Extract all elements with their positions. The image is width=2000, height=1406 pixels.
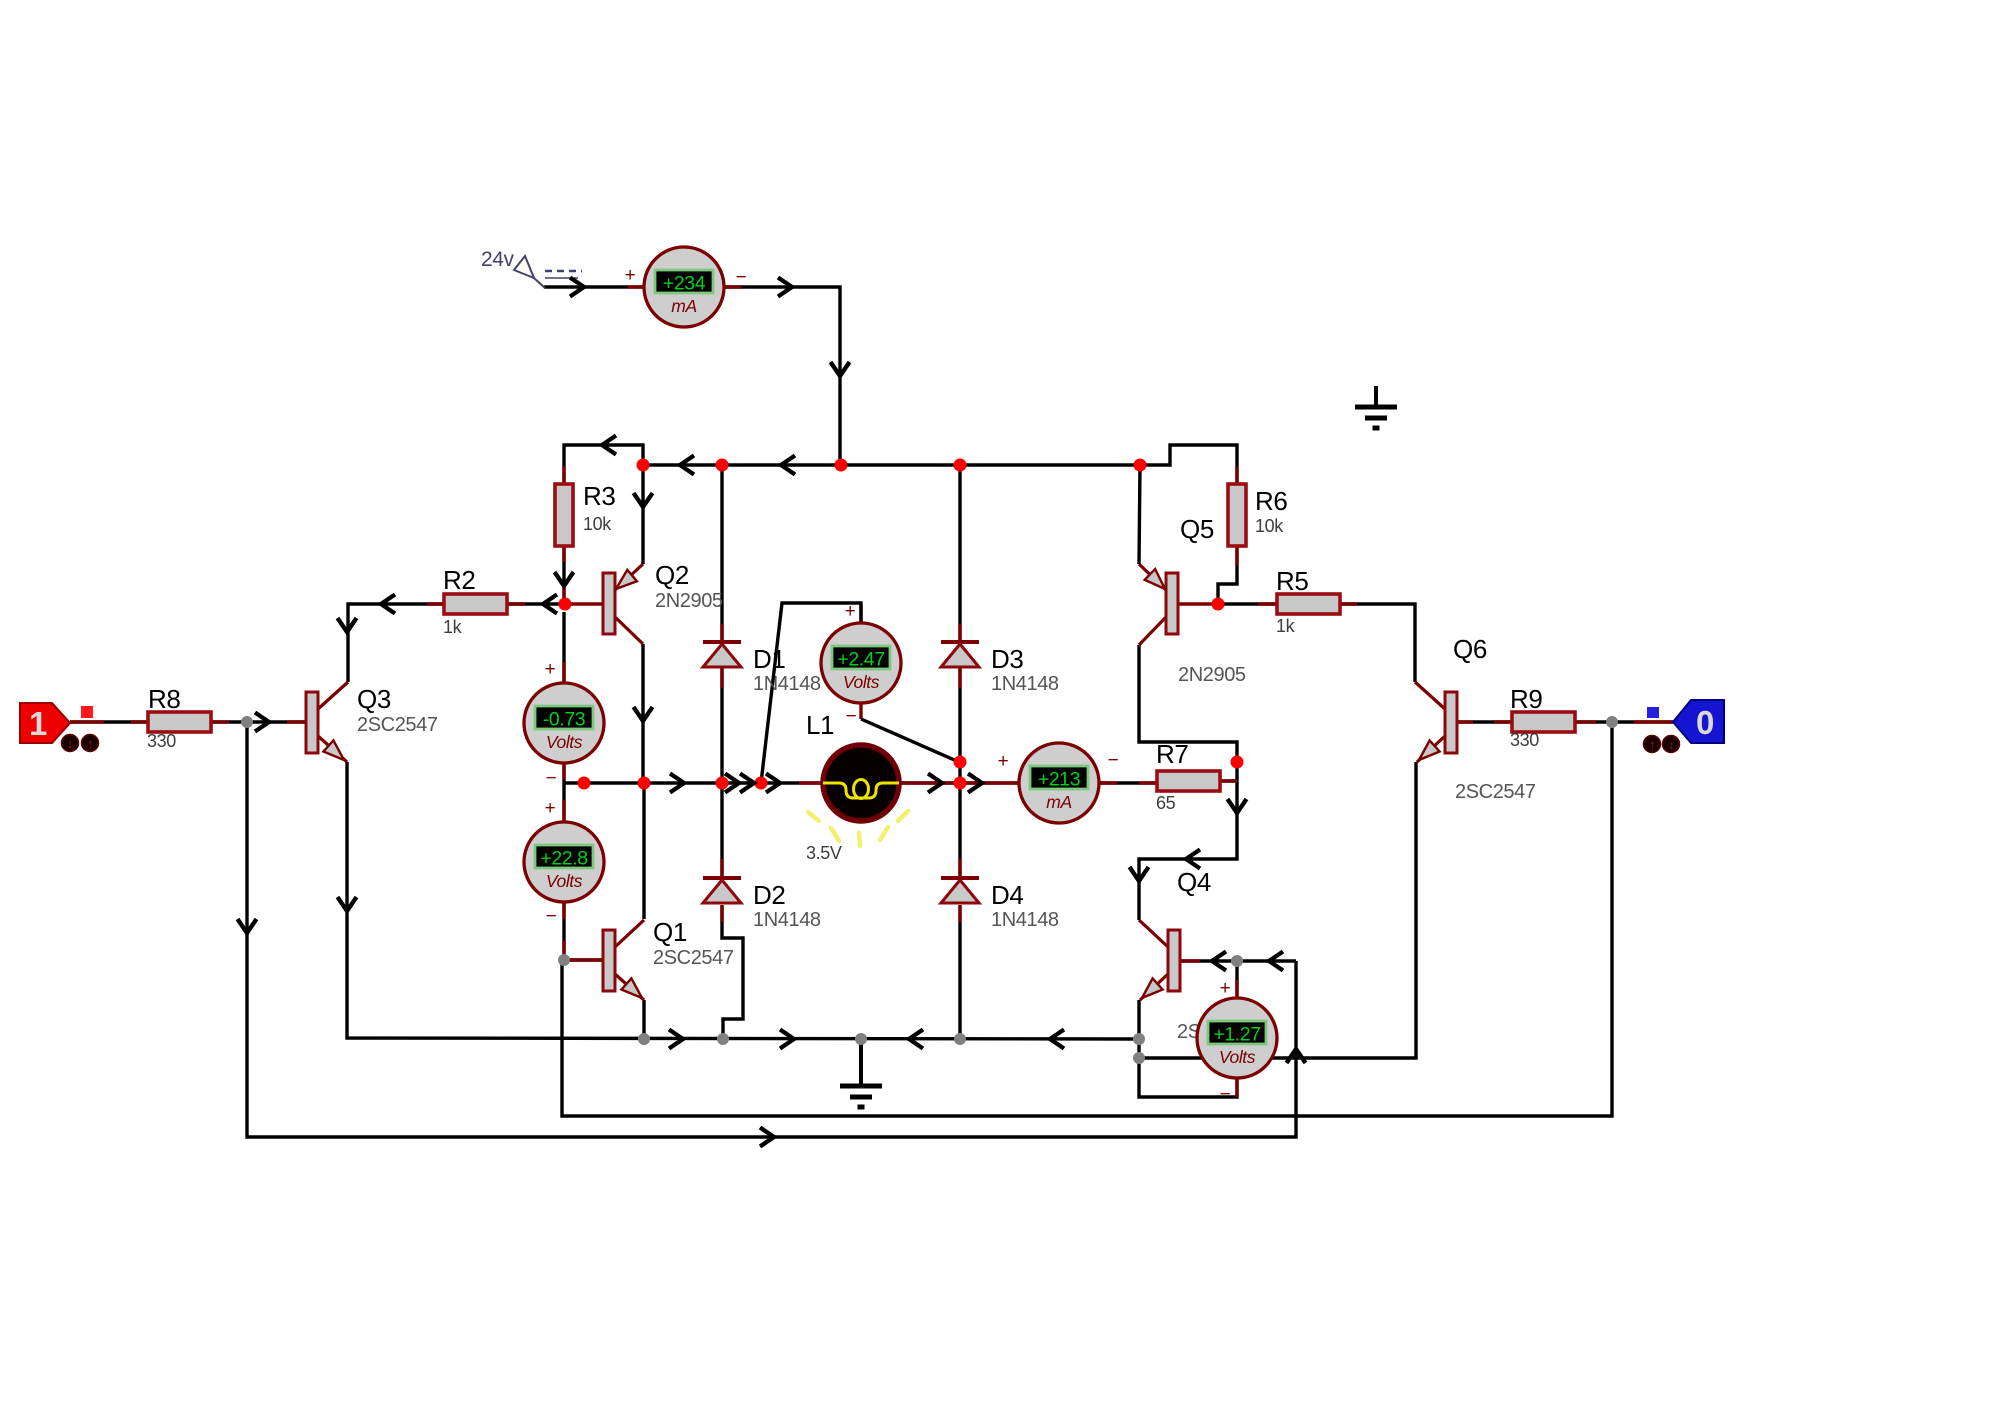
resistor R2 1k [444, 594, 507, 614]
arrow R3 to base [555, 572, 574, 586]
resistor R6 10k [1228, 484, 1246, 546]
svg-text:10k: 10k [583, 514, 612, 534]
wire ammeter M2 to R7 [1099, 781, 1157, 784]
svg-text:↓: ↓ [1668, 737, 1674, 752]
node Q1 base [558, 954, 570, 966]
arrow rail 1 [680, 456, 694, 475]
wire Q4 base to right [1179, 959, 1296, 962]
resistor R8 330 [148, 712, 211, 732]
wire R2 left to Q3 collector [348, 604, 444, 682]
wire R5 to Q6 collector [1339, 604, 1415, 682]
arrow Q3 emitter [338, 897, 357, 911]
wire Q3 emitter down and ground rail [347, 762, 1139, 1039]
wire Q5 base node to R5 [1218, 602, 1277, 605]
svg-text:D2: D2 [753, 880, 785, 910]
ground top right (floating) [1355, 386, 1397, 428]
node rail-D3 [954, 459, 967, 472]
svg-text:↑: ↑ [1649, 737, 1655, 752]
arrow gnd rail 1 [669, 1030, 683, 1049]
wire D2 anode jog to ground rail [722, 905, 743, 1039]
svg-text:D4: D4 [991, 880, 1023, 910]
svg-text:2N2905: 2N2905 [1178, 664, 1246, 686]
node D3 V3 probe [954, 756, 967, 769]
arrow feedback down [238, 919, 257, 933]
svg-text:1: 1 [29, 705, 47, 742]
svg-text:330: 330 [147, 731, 176, 751]
arrow rail 2 [781, 456, 795, 475]
wire rail to Q5 emitter [1139, 465, 1140, 564]
node rail-supply [835, 459, 848, 472]
wire lamp to ammeter M2 [900, 781, 1019, 784]
svg-text:+213: +213 [1038, 769, 1080, 791]
wire Q4 emitter to voltmeter V4 minus loop [1139, 1000, 1237, 1097]
svg-text:330: 330 [1510, 730, 1539, 750]
wire Q1 base node feedback to output node [562, 722, 1612, 1116]
arrow into rail [778, 278, 792, 297]
power supply 24v [481, 248, 582, 288]
node gnd Q4 emitter [1133, 1033, 1145, 1045]
node R7 branch [1231, 756, 1244, 769]
svg-text:1N4148: 1N4148 [991, 673, 1059, 695]
wire Q2 collector down to mid node [641, 644, 644, 783]
svg-text:1k: 1k [443, 617, 463, 637]
node pin1 branch [241, 716, 253, 728]
wire voltmeter V2 minus to Q1 base node [562, 901, 565, 960]
node Q4 base meter tap [1231, 955, 1243, 967]
svg-text:Q2: Q2 [655, 560, 689, 590]
lamp L1 3.5V [808, 745, 908, 846]
wire R7 right to vertical [1218, 779, 1237, 782]
node mid meter tap [578, 777, 591, 790]
svg-text:+2.47: +2.47 [837, 649, 884, 671]
svg-text:Q4: Q4 [1177, 867, 1211, 897]
wire Q1 emitter to ground rail [642, 1000, 645, 1039]
svg-text:Q5: Q5 [1180, 514, 1214, 544]
node rail-Q2 [637, 459, 650, 472]
wire voltmeter V1 minus to mid wire [562, 762, 565, 783]
node gnd D4 [954, 1033, 966, 1045]
svg-text:R7: R7 [1156, 739, 1188, 769]
wire pin1 node down along bottom to Q4 base [247, 722, 1296, 1137]
transistor Q1 2SC2547 [603, 920, 644, 1000]
svg-text:R9: R9 [1510, 684, 1542, 714]
voltmeter V2 [524, 822, 604, 902]
svg-text:+1.27: +1.27 [1213, 1024, 1260, 1046]
wire Q2 base node to voltmeter V1 plus [562, 612, 565, 684]
wire ground rail to ground symbol [859, 1039, 862, 1085]
wire R8 to Q3 base [211, 720, 306, 723]
arrow Q3 collector [338, 618, 357, 632]
arrow supply drop [831, 362, 850, 376]
svg-text:+: + [998, 751, 1009, 772]
svg-text:+: + [545, 798, 556, 819]
node pin0 branch [1606, 716, 1618, 728]
node gnd symbol [855, 1033, 867, 1045]
transistor Q5 2N2905 [1139, 564, 1178, 645]
svg-text:+234: +234 [663, 273, 706, 295]
wire mid wire to voltmeter V2 plus [562, 783, 565, 823]
svg-text:Q6: Q6 [1453, 634, 1487, 664]
wire top positive rail with jog to R6 [643, 445, 1237, 485]
diode D4 1N4148 [941, 878, 979, 903]
svg-text:R6: R6 [1255, 486, 1287, 516]
wire mid node down to D4 cathode [958, 783, 961, 878]
svg-text:+: + [545, 659, 556, 680]
svg-text:+: + [625, 265, 636, 286]
resistor R9 330 [1512, 712, 1575, 732]
arrow R7 node down [1228, 799, 1247, 813]
diode D2 1N4148 [703, 878, 741, 903]
svg-text:-0.73: -0.73 [543, 709, 585, 731]
arrow Q4 base 2 [1269, 952, 1283, 971]
arrow mid 3 [740, 774, 754, 793]
arrow gnd rail 4 [1050, 1030, 1064, 1049]
svg-text:↑: ↑ [87, 736, 93, 751]
svg-text:+: + [1220, 978, 1231, 999]
wire rail to Q2 emitter [641, 465, 644, 564]
resistor R7 65 [1157, 771, 1220, 791]
svg-text:Q1: Q1 [653, 917, 687, 947]
svg-text:2SC2547: 2SC2547 [357, 714, 438, 736]
svg-text:R3: R3 [583, 481, 615, 511]
diode D1 1N4148 [703, 642, 741, 667]
svg-text:1N4148: 1N4148 [753, 909, 821, 931]
wire pin 1 to R8 [70, 720, 149, 723]
wire ammeter to top rail [724, 287, 840, 465]
arrow R2 to Q3 [381, 595, 395, 614]
wire mid node down to Q1 collector [642, 783, 645, 919]
svg-text:10k: 10k [1255, 516, 1284, 536]
resistor R5 1k [1277, 594, 1340, 614]
node gnd D2 [717, 1033, 729, 1045]
wire rail jog to R3 top [564, 445, 643, 483]
svg-text:1N4148: 1N4148 [753, 673, 821, 695]
voltmeter V4 [1197, 998, 1277, 1078]
wire R9 to output node [1575, 720, 1612, 723]
wire voltmeter V3 minus probe to D3 node [861, 719, 959, 762]
svg-text:R5: R5 [1276, 566, 1308, 596]
voltmeter V3 [821, 623, 901, 703]
svg-text:R8: R8 [148, 684, 180, 714]
svg-text:R2: R2 [443, 565, 475, 595]
svg-text:−: − [546, 906, 557, 927]
svg-text:1N4148: 1N4148 [991, 909, 1059, 931]
svg-text:−: − [736, 267, 747, 288]
wire rail down to D3 cathode [958, 465, 961, 643]
arrow up Q4 base [1287, 1049, 1306, 1063]
arrow Q3 base [255, 713, 269, 732]
arrow base to R2 [543, 595, 557, 614]
svg-text:−: − [1108, 750, 1119, 771]
wire D3 anode to mid wire [958, 668, 961, 783]
svg-text:0: 0 [1696, 704, 1714, 741]
transistor Q6 2SC2547 [1415, 682, 1457, 762]
arrow mid 5 [928, 774, 942, 793]
arrow into R3 [602, 436, 616, 455]
arrow Q4 base 1 [1212, 952, 1226, 971]
ammeter M1 supply [644, 247, 724, 327]
node rail-D1 [716, 459, 729, 472]
node rail-Q5 [1134, 459, 1147, 472]
svg-text:Volts: Volts [843, 672, 880, 692]
arrow Q4 collector [1130, 867, 1149, 881]
svg-text:65: 65 [1156, 793, 1176, 813]
resistor R3 10k [555, 484, 573, 546]
wire Q5 collector to Q4 collector chain [1139, 645, 1237, 920]
input pin 1 [20, 703, 99, 752]
wire D4 anode to ground rail [958, 905, 961, 1039]
node gnd Q1 [638, 1033, 650, 1045]
svg-text:2SC2547: 2SC2547 [1455, 781, 1536, 803]
wire Q2 base node to R2 right [506, 602, 565, 605]
arrow supply in [570, 278, 584, 297]
svg-text:mA: mA [671, 296, 696, 316]
arrow gnd rail 2 [780, 1030, 794, 1049]
svg-text:D3: D3 [991, 644, 1023, 674]
svg-text:+: + [845, 601, 856, 622]
ammeter M2 lamp current [1019, 743, 1099, 823]
node Q2 base [559, 598, 572, 611]
wire Q4 base node to voltmeter V4 plus [1235, 961, 1238, 997]
svg-text:D1: D1 [753, 644, 785, 674]
transistor Q4 2SC2547 [1139, 920, 1180, 1000]
wire mid node down to D2 cathode [720, 783, 723, 878]
svg-text:2SC2547: 2SC2547 [653, 947, 734, 969]
arrow mid 6 [968, 774, 982, 793]
arrow mid 1 [670, 774, 684, 793]
arrow Q2 emitter [634, 493, 653, 507]
arrow mid 2 [725, 774, 739, 793]
wire output node to pin 0 [1612, 720, 1673, 723]
svg-text:+22.8: +22.8 [540, 848, 587, 870]
wire node to Q1 base [564, 958, 603, 961]
svg-text:3.5V: 3.5V [806, 843, 842, 863]
arrow to Q4 collector [1186, 850, 1200, 869]
svg-text:Q3: Q3 [357, 684, 391, 714]
svg-text:24v: 24v [481, 248, 515, 271]
node mid Q1/Q2 [638, 777, 651, 790]
node mid V3 probe [755, 777, 768, 790]
node Q4 emitter Q6 [1133, 1052, 1145, 1064]
arrow Q2 collector [634, 707, 653, 721]
wire 24v supply to ammeter [544, 285, 644, 288]
svg-text:Volts: Volts [546, 732, 583, 752]
ground center [840, 1039, 882, 1107]
svg-text:L1: L1 [806, 710, 834, 740]
arrow gnd rail 3 [909, 1030, 923, 1049]
arrow bottom to Q4 base [760, 1128, 774, 1147]
transistor Q3 2SC2547 [306, 682, 348, 762]
voltmeter V1 [524, 683, 604, 763]
node Q5 base [1212, 598, 1225, 611]
node mid D3/D4 [954, 777, 967, 790]
wire Q6 base to R9 [1456, 720, 1513, 723]
output pin 0 [1644, 700, 1725, 753]
wire rail down to D1 cathode [720, 465, 723, 643]
wire R6 bottom jog to Q5 base node [1218, 546, 1237, 604]
wire Q6 emitter down and left to Q4 emitter node [1139, 762, 1416, 1058]
svg-text:Volts: Volts [1219, 1047, 1256, 1067]
svg-text:mA: mA [1046, 792, 1071, 812]
svg-text:−: − [546, 768, 557, 789]
wire R3 bottom to Q2 base node [562, 546, 565, 604]
node mid D1/D2 [716, 777, 729, 790]
transistor Q2 2N2905 [603, 564, 643, 644]
svg-text:−: − [846, 706, 857, 727]
wire D1 anode to mid wire [720, 668, 723, 783]
diode D3 1N4148 [941, 642, 979, 667]
wire mid rail left half to lamp [564, 781, 822, 784]
wire voltmeter V3 plus probe to mid node [761, 603, 861, 783]
svg-text:↓: ↓ [67, 736, 73, 751]
svg-text:−: − [1220, 1084, 1231, 1105]
component lead stubs [70, 287, 1673, 1097]
svg-text:2N2905: 2N2905 [655, 590, 723, 612]
svg-text:1k: 1k [1276, 616, 1296, 636]
svg-text:Volts: Volts [546, 871, 583, 891]
arrow mid 4 [766, 774, 780, 793]
